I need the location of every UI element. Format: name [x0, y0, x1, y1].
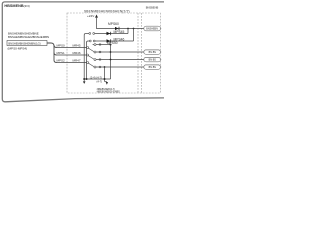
- wire +24V vertical: [97, 18, 145, 29]
- svg-text:MR45: MR45: [73, 43, 81, 47]
- wire riser row2 to rail: [133, 29, 135, 42]
- wire right row 4: [96, 66, 144, 68]
- source board label box: [7, 41, 47, 46]
- bus branch 1: [54, 45, 57, 48]
- svg-text:MPS2: MPS2: [57, 58, 66, 62]
- node merge C: [104, 78, 106, 80]
- connector boundary dashed line 2: [141, 13, 143, 93]
- svg-text:MPS0: MPS0: [57, 43, 66, 47]
- connector boundary dashed line 1: [137, 13, 139, 93]
- sensor S2: [144, 57, 161, 61]
- wire right row 2: [96, 51, 144, 53]
- svg-text:+24V: +24V: [87, 14, 95, 18]
- hook vertical: [104, 67, 106, 82]
- pin circle right row 2: [94, 51, 96, 53]
- connector pin circles row 1: [89, 33, 91, 35]
- pin circle left row 2: [87, 54, 89, 56]
- svg-text:·NBEBSNEB(3-5)NBS: ·NBEBSNEB(3-5)NBS: [96, 91, 120, 94]
- svg-text:BNSHEBN: BNSHEBN: [146, 28, 158, 31]
- node return: [110, 44, 112, 46]
- svg-text:HBSMENB(3/3): HBSMENB(3/3): [4, 4, 29, 8]
- merge wire: [84, 78, 110, 80]
- sensor S3: [144, 65, 161, 69]
- svg-text:BN·BS: BN·BS: [149, 59, 157, 62]
- svg-text:MR46: MR46: [73, 51, 81, 55]
- wire left row 2: [57, 54, 87, 56]
- wire left row 1: [57, 47, 87, 49]
- sensor S1: [144, 50, 161, 54]
- splice x return row: [99, 44, 101, 46]
- splice diagonal row 1: [89, 48, 95, 52]
- node merge A: [83, 78, 85, 80]
- node row 2: [110, 51, 112, 53]
- pin circle return row: [94, 44, 96, 46]
- pin circle left row 3: [87, 62, 89, 64]
- wire diode row 1: [86, 33, 89, 35]
- riser wire left B: [87, 41, 89, 79]
- dashed unit box: [67, 13, 160, 93]
- svg-text:MPS1: MPS1: [57, 51, 66, 55]
- svg-text:(4-7): (4-7): [97, 79, 103, 83]
- pin circle right row 4: [94, 66, 96, 68]
- bus branch 3: [54, 60, 57, 63]
- svg-text:(MPS0-MPS4): (MPS0-MPS4): [8, 46, 28, 50]
- node merge B: [86, 78, 88, 80]
- diode D3: [107, 39, 111, 42]
- svg-text:BN·BS: BN·BS: [149, 66, 157, 69]
- wire diode row 2: [88, 40, 90, 42]
- riser wire left A: [84, 34, 86, 82]
- node J1: [127, 28, 129, 30]
- splice x right row 2: [99, 51, 101, 53]
- svg-text:MR47: MR47: [73, 58, 81, 62]
- +24V supply arrow: [95, 15, 98, 18]
- svg-text:MPS60: MPS60: [108, 22, 119, 26]
- wire riser row1 to rail: [127, 29, 129, 34]
- wire return row stub: [93, 44, 94, 46]
- svg-text:BNSHEMBNSHEMBN(1/2): BNSHEMBNSHEMBN(1/2): [8, 41, 40, 45]
- svg-text:SBENMBSHENKBSHEN(2/2): SBENMBSHENKBSHEN(2/2): [84, 9, 130, 13]
- svg-text:(2-4) (4-7): (2-4) (4-7): [90, 76, 102, 80]
- connector pin circles row 2: [89, 40, 91, 42]
- svg-text:MPS45: MPS45: [114, 30, 125, 34]
- bus branch 2: [54, 53, 57, 56]
- svg-text:BNSBENB: BNSBENB: [146, 6, 159, 10]
- node row 3: [110, 59, 112, 61]
- splice x right row 4: [99, 66, 101, 68]
- wire left row 3: [57, 62, 87, 64]
- node row 4 a: [104, 66, 106, 68]
- bus from label box: [47, 43, 54, 61]
- unit box title: [84, 9, 131, 13]
- return vertical: [110, 45, 112, 80]
- pin circle left row 1: [87, 47, 89, 49]
- splice x right row 3: [99, 59, 101, 61]
- svg-text:BNSHEMBNSHEMBNSHEMBN: BNSHEMBNSHEMBNSHEMBN: [8, 35, 49, 39]
- splice diagonal row 3: [89, 63, 95, 66]
- wire return row: [96, 44, 111, 46]
- continuation arrow: [105, 81, 107, 83]
- pin circle right row 3: [94, 59, 96, 61]
- diode D2: [107, 32, 111, 35]
- diode D1: [115, 27, 119, 30]
- wire right row 3: [96, 59, 144, 61]
- splice diagonal row 2: [89, 56, 95, 60]
- node J2: [133, 28, 135, 30]
- svg-text:BN·BS: BN·BS: [149, 51, 157, 54]
- solenoid SL1: [144, 26, 161, 31]
- page border frame: [2, 2, 164, 102]
